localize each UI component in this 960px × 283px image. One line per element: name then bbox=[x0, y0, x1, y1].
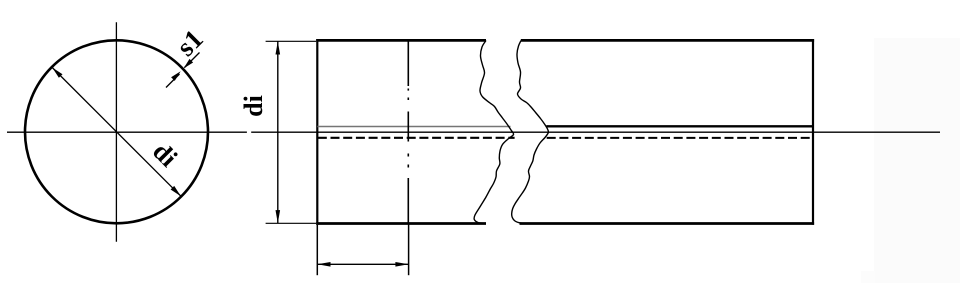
bottom dimension extension line left (pipe edge extended) bbox=[316, 225, 318, 275]
vertical dimension line di bbox=[277, 41, 279, 223]
hidden dashed line (right section) bbox=[547, 137, 813, 139]
side view right end edge bbox=[812, 39, 814, 225]
break line wavy 2 bbox=[512, 41, 549, 224]
bottom dimension extension line right (seam extended) bbox=[408, 224, 410, 276]
side view top edge (right section) bbox=[521, 39, 814, 42]
vertical dimension extension line top bbox=[266, 40, 316, 42]
horizontal centerline axis (right segment) bbox=[251, 131, 940, 133]
faint gray panel right bbox=[874, 38, 960, 283]
vertical dimension arrow up bbox=[276, 41, 281, 54]
side view top edge (left section) bbox=[316, 39, 486, 42]
wall thickness leader line lower bbox=[166, 74, 180, 88]
weld seam centerline vertical (phantom style) bbox=[407, 40, 409, 224]
wall thickness lower arrowhead bbox=[171, 71, 181, 81]
svg-text:di: di bbox=[239, 95, 268, 117]
diameter dimension arrowhead lower-right bbox=[171, 186, 181, 196]
horizontal centerline axis (left segment) bbox=[7, 131, 247, 133]
bottom dimension line bbox=[317, 263, 408, 265]
diameter dimension arrowhead upper-left bbox=[52, 68, 62, 78]
side view left end edge bbox=[316, 39, 318, 225]
vertical crosshair of front view bbox=[115, 22, 117, 242]
bottom dimension arrow left bbox=[317, 262, 330, 267]
wall thickness leader line upper bbox=[185, 53, 200, 68]
side view bottom edge (right section) bbox=[520, 222, 815, 225]
vertical dimension extension line bottom bbox=[266, 222, 316, 224]
inner bore line thick (right section) bbox=[546, 125, 813, 127]
inner bore line gray (left section) bbox=[317, 126, 510, 128]
diameter dimension line (diagonal, 45deg) bbox=[52, 68, 181, 197]
hidden dashed line (left section) bbox=[318, 137, 515, 139]
bottom dimension arrow right bbox=[395, 262, 408, 267]
break line wavy 1 bbox=[474, 41, 514, 224]
side view bottom edge (left section) bbox=[316, 222, 486, 225]
wall thickness upper arrowhead bbox=[184, 59, 194, 69]
vertical dimension arrow down bbox=[276, 210, 281, 223]
front view outer circle bbox=[25, 40, 208, 223]
